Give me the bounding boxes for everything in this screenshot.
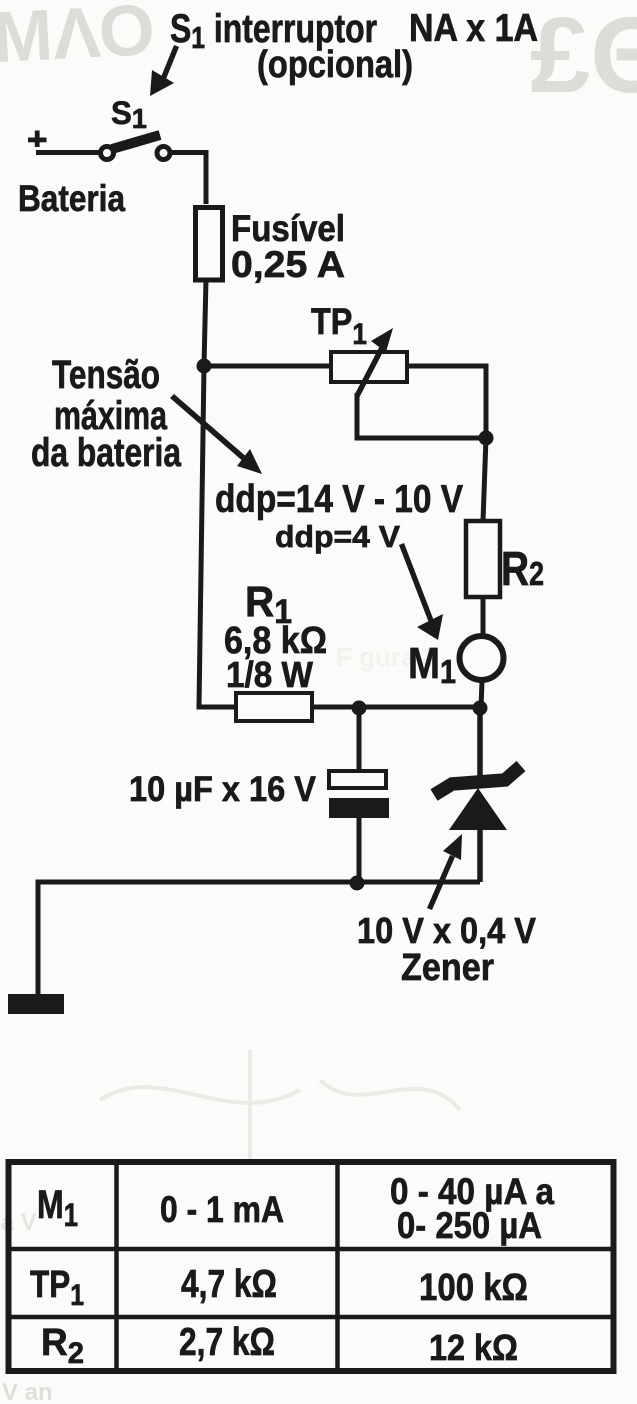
- svg-text:V an: V an: [2, 1379, 53, 1404]
- table of component values: [9, 1162, 614, 1371]
- wire: zener to ground rail: [477, 830, 483, 882]
- arrow from label to ddp text: [170, 394, 262, 474]
- svg-text:M1: M1: [408, 639, 456, 690]
- potentiometer TP1: [311, 301, 407, 396]
- svg-text:M1: M1: [37, 1183, 78, 1233]
- svg-text:Bateria: Bateria: [18, 178, 125, 219]
- wire: capacitor to ground rail: [357, 818, 362, 884]
- label Tensão máxima da bateria: [31, 353, 182, 475]
- arrow from label to S1: [150, 45, 179, 96]
- resistor R2: [466, 521, 544, 597]
- svg-text:10 V x 0,4 V: 10 V x 0,4 V: [357, 910, 536, 951]
- TP1 wiper arrow: [357, 344, 384, 396]
- ground symbol: [8, 994, 64, 1014]
- wire: R2 to M1: [481, 597, 486, 637]
- arrow from ddp=4V to M1: [399, 543, 443, 640]
- table row R2: [41, 1321, 518, 1370]
- arrow pointing to zener: [427, 834, 462, 910]
- svg-text:0 - 1 mA: 0 - 1 mA: [160, 1189, 284, 1230]
- svg-text:R2: R2: [41, 1322, 84, 1370]
- wire: node B to R2: [483, 438, 486, 521]
- capacitor C1 10uF x 16V: [329, 771, 389, 818]
- svg-text:ddp=14 V - 10 V: ddp=14 V - 10 V: [215, 478, 463, 521]
- svg-text:4,7 kΩ: 4,7 kΩ: [181, 1263, 277, 1306]
- wire: node C to zener: [477, 708, 483, 779]
- svg-text:S1: S1: [111, 95, 147, 134]
- resistor R1: [224, 578, 327, 721]
- wire: ground rail: [38, 882, 480, 995]
- node D: junction rail / capacitor branch: [352, 701, 367, 716]
- svg-text:R2: R2: [501, 543, 544, 596]
- switch S1: [101, 95, 171, 160]
- svg-text:ddp=4 V: ddp=4 V: [275, 519, 400, 554]
- label Fusível 0,25 A: [231, 208, 345, 285]
- node A: junction left rail / TP1 branch: [197, 359, 212, 374]
- svg-text:(opcional): (opcional): [257, 44, 413, 86]
- table row TP1: [30, 1263, 528, 1312]
- fuse: Fusível 0,25A: [196, 208, 223, 281]
- svg-text:ΜΛΟ: ΜΛΟ: [0, 0, 157, 78]
- wire: M1 to node C: [481, 681, 482, 708]
- svg-text:1/8 W: 1/8 W: [226, 654, 313, 695]
- svg-text:Zener: Zener: [401, 947, 494, 989]
- wire: TP1 wiper to node B: [357, 393, 486, 438]
- wire: switch to fuse: [171, 153, 206, 205]
- meter M1: [408, 636, 504, 690]
- table row M1: [37, 1171, 554, 1246]
- label 10 V x 0,4 V Zener: [357, 910, 536, 989]
- svg-text:12 kΩ: 12 kΩ: [429, 1327, 518, 1368]
- wire: node D to capacitor: [357, 708, 362, 771]
- svg-text:£Θ: £Θ: [530, 0, 637, 115]
- svg-text:Tensão: Tensão: [52, 353, 160, 397]
- svg-text:TP1: TP1: [30, 1264, 84, 1312]
- wire: bottom horizontal rail through R1: [198, 705, 480, 710]
- wire: node A to TP1: [204, 364, 331, 369]
- wire: fuse down left rail to R1 corner: [199, 279, 236, 707]
- node B: junction wiper / R2: [479, 431, 494, 446]
- svg-text:0,25 A: 0,25 A: [231, 244, 345, 285]
- svg-text:0- 250 µA: 0- 250 µA: [397, 1205, 542, 1246]
- node: + battery terminal: [28, 131, 47, 148]
- zener diode D1: [434, 766, 521, 830]
- svg-text:TP1: TP1: [311, 301, 367, 351]
- wire: + to switch: [36, 150, 99, 155]
- label: S1 interruptor NA x 1A: [170, 7, 538, 86]
- wire: TP1 right side down to node B: [407, 366, 486, 438]
- svg-text:Fusível: Fusível: [231, 208, 345, 249]
- svg-text:100 kΩ: 100 kΩ: [419, 1267, 528, 1309]
- svg-text:10 µF x 16 V: 10 µF x 16 V: [129, 770, 317, 809]
- svg-text:NA x 1A: NA x 1A: [409, 7, 538, 50]
- node C: junction M1 / zener / R1 rail: [473, 701, 488, 716]
- svg-text:da bateria: da bateria: [31, 431, 182, 475]
- svg-text:2,7 kΩ: 2,7 kΩ: [179, 1321, 275, 1364]
- node E: junction ground rail / capacitor: [350, 876, 365, 891]
